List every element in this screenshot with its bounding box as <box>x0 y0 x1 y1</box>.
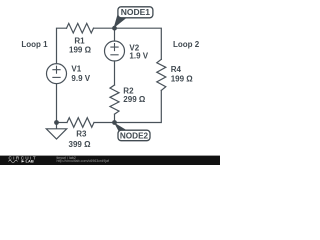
NODE1 callout tail <box>114 15 128 29</box>
svg-text:Loop 2: Loop 2 <box>173 40 200 49</box>
wire: R4 to bottom-right corner to node2 <box>94 90 161 122</box>
node junction dot at ground <box>54 120 59 125</box>
NODE2 callout tail <box>114 123 128 132</box>
V1 plus sign <box>53 66 60 73</box>
svg-text:R4: R4 <box>171 65 182 74</box>
footer logo arrow <box>22 160 25 163</box>
footer logo squiggle <box>9 160 18 163</box>
V1 minus sign <box>53 76 60 78</box>
resistor R4 <box>157 59 166 90</box>
svg-text:1.9 V: 1.9 V <box>129 51 148 60</box>
resistor R2 <box>110 85 119 114</box>
wire: R3 to ground junction <box>57 122 68 124</box>
wire: top-left corner segment <box>57 28 67 63</box>
svg-text:399 Ω: 399 Ω <box>69 140 92 149</box>
node junction dot at NODE2 <box>112 120 117 125</box>
NODE1 label box <box>118 7 153 18</box>
wire: V2 bottom to R2 <box>114 61 116 85</box>
svg-text:LAB: LAB <box>26 159 34 164</box>
svg-text:9.9 V: 9.9 V <box>71 74 90 83</box>
svg-text:Loop 1: Loop 1 <box>21 40 48 49</box>
svg-text:199 Ω: 199 Ω <box>171 74 194 83</box>
svg-text:199 Ω: 199 Ω <box>69 45 92 54</box>
svg-text:NODE2: NODE2 <box>120 132 149 141</box>
svg-text:R3: R3 <box>76 129 87 138</box>
voltage source V2 <box>105 41 125 61</box>
svg-text:R2: R2 <box>123 87 134 96</box>
node junction dot at NODE1 <box>112 26 117 31</box>
wire: R2 to node2 junction <box>114 114 116 122</box>
resistor R3 <box>67 118 94 128</box>
footer watermark bar <box>0 156 220 165</box>
wire: node1 junction down to V2 <box>114 28 116 41</box>
svg-text:V1: V1 <box>71 65 81 74</box>
svg-text:299 Ω: 299 Ω <box>123 95 146 104</box>
ground <box>46 123 66 140</box>
svg-text:R1: R1 <box>74 37 85 46</box>
NODE2 label box <box>118 130 150 141</box>
resistor R1 <box>67 23 94 33</box>
svg-text:NODE1: NODE1 <box>121 7 151 17</box>
V2 plus sign <box>111 44 118 51</box>
voltage source V1 <box>47 64 67 84</box>
svg-text:http://circuitlab.com/c6963crd: http://circuitlab.com/c6963crd9jaf <box>57 159 110 163</box>
V2 minus sign <box>111 54 118 56</box>
wire: V1 bottom to ground junction <box>56 84 58 123</box>
wire: top segment R1 to node1 junction to right corner <box>94 28 162 59</box>
